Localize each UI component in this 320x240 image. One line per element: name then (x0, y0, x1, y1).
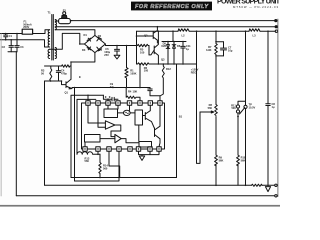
resistor R7 (215, 44, 218, 56)
wire secondary tap3 to bridge (55, 30, 95, 36)
wire emitter drop (74, 88, 76, 182)
svg-text:Q3: Q3 (161, 58, 165, 62)
pot wiper arrow (200, 111, 212, 113)
wire R10 to ground rail (237, 165, 239, 185)
wire right drop (176, 64, 178, 178)
capacitor C7 (221, 42, 227, 56)
capacitor C6 (115, 46, 120, 56)
parallel RC bottom bar (216, 55, 224, 57)
wire op-amp B output (121, 139, 139, 143)
svg-text:56K: 56K (241, 158, 246, 162)
bottom scan line (0, 205, 280, 207)
transformer T1 primary winding (48, 30, 49, 47)
resistor R2 horizontal (62, 65, 72, 67)
pot wiper arrowhead (211, 111, 214, 113)
IC pin 5 (127, 101, 131, 105)
reference banner (131, 2, 212, 11)
node dots AC input (5, 33, 7, 35)
resistor R6 (137, 63, 153, 65)
IC pin 16 (157, 147, 161, 151)
capacitor C1 (4, 34, 8, 40)
svg-text:C2: C2 (2, 45, 6, 49)
diode D4 tick (97, 47, 102, 51)
IC pin 14 (136, 147, 140, 151)
IC pin 12 (117, 147, 121, 151)
svg-text:100K: 100K (130, 71, 136, 75)
IC pin 3 (106, 101, 110, 105)
IC block 3 (139, 142, 152, 148)
IC pin center dots bottom (84, 148, 85, 149)
IC pin 6 (138, 101, 142, 105)
fuse F1 (22, 29, 32, 34)
wire feedback branch (197, 31, 201, 163)
wire Q2 base feed (137, 35, 154, 37)
IC pin 8 (158, 101, 162, 105)
trimmer VR1 (236, 105, 247, 113)
parallel RC top bar (216, 41, 224, 43)
svg-text:560: 560 (103, 166, 108, 170)
wire pin10 stub (97, 151, 99, 154)
thermal fuse icon (62, 12, 68, 19)
wire regulator output riser (172, 31, 174, 41)
capacitor C9 (103, 95, 118, 101)
wire pin11 to bottom bus (109, 151, 120, 177)
ground below C6 (114, 55, 120, 59)
wire branch trimmer (238, 31, 246, 116)
IC pin 13 (128, 147, 132, 151)
transformer T1 aux winding (48, 49, 50, 58)
svg-text:D6: D6 (177, 44, 181, 48)
transformer T1 core (52, 15, 54, 61)
IC pin 10 (96, 147, 100, 151)
return rail bottom (16, 195, 274, 197)
wire riser R6 to mid line (139, 64, 141, 88)
resistor R14 (99, 154, 101, 177)
diode D6 (172, 42, 176, 65)
wire primary return drop (44, 81, 46, 185)
capacitor C10 (148, 88, 160, 101)
resistor R4 above IC (126, 88, 140, 101)
wire pin1 stub (87, 95, 89, 101)
IC op-amp A (105, 121, 115, 129)
resistor R12 to pin8 (160, 64, 164, 101)
IC U1 outline (82, 103, 165, 149)
wire branch R7C7 (215, 31, 217, 43)
svg-text:10K: 10K (133, 90, 138, 94)
capacitor C3 (15, 34, 19, 52)
svg-text:3.9K: 3.9K (206, 48, 212, 52)
svg-text:250V: 250V (23, 25, 29, 29)
fuse F2 (59, 19, 71, 24)
IC internal block 1 (104, 109, 118, 118)
resistor R5 (138, 44, 150, 46)
node dots zener bar (167, 41, 169, 43)
resistor R13 squiggle (77, 152, 100, 155)
rail 2 terminal (275, 26, 277, 28)
wire secondary tap1 to fuse F2 (55, 20, 72, 22)
connector body line (277, 19, 279, 197)
IC oscillator (123, 110, 130, 115)
rail 3 terminal (275, 30, 277, 32)
svg-text:R12: R12 (166, 67, 171, 71)
resistor R11 (252, 184, 263, 186)
snubber bottom bracket (45, 80, 62, 82)
svg-text:10.5V: 10.5V (249, 105, 256, 109)
svg-text:B1: B1 (179, 115, 183, 119)
wire mid line (72, 87, 150, 89)
wire bottom loop inner (75, 151, 120, 181)
svg-text:REG: REG (191, 70, 197, 74)
ground rail terminal (275, 184, 277, 186)
node dots rail3 (172, 30, 174, 32)
polarity plus marks (105, 96, 107, 99)
ground symbol right (265, 187, 270, 192)
svg-text:10µ: 10µ (228, 49, 233, 53)
svg-text:56K: 56K (219, 158, 224, 162)
inductor L2 (178, 29, 189, 31)
rail 1 (70, 20, 275, 22)
wire driver down (138, 125, 140, 142)
svg-text:D4: D4 (99, 48, 103, 52)
diode D1 tick (87, 38, 91, 41)
wire pin4 to block1 (117, 105, 119, 109)
scan background (0, 0, 280, 210)
capacitor C11 (181, 42, 185, 65)
wire osc to driver (130, 112, 135, 114)
wire C8 to ground rail (267, 106, 269, 186)
zener D5 (166, 42, 170, 65)
node dots low bus (158, 63, 160, 65)
IC pin 11 (107, 147, 111, 151)
resistor R1 (125, 68, 128, 78)
IC pin 2 (96, 101, 100, 105)
capacitor C4 snubber (56, 66, 60, 81)
wire pin3 stub (107, 99, 109, 101)
snubber top bracket (45, 65, 62, 67)
node dots rail2 (157, 26, 159, 28)
IC pin 1 (86, 101, 90, 105)
svg-text:D1: D1 (84, 33, 88, 37)
IC block 2 (85, 135, 101, 143)
inductor L3 (249, 29, 260, 31)
wire bridge DC+ (105, 44, 137, 46)
resistor R3 snubber (50, 66, 52, 81)
wire block2 to op-amp B (100, 138, 115, 140)
wire left IC loop (71, 95, 103, 177)
wire pin5 to osc (129, 105, 131, 110)
transformer T1 secondary upper winding (55, 20, 56, 30)
IC oscillator wave (125, 112, 129, 114)
wire trimmer to R10 (237, 117, 239, 156)
trimmer main lead (245, 109, 247, 186)
wire bottom rail IC (71, 177, 177, 179)
resistor R10 (237, 155, 240, 166)
svg-text:C3: C3 (20, 45, 24, 49)
wire pin3 to block1 (107, 105, 109, 109)
node dots left power stage (70, 61, 72, 63)
wire branch to pot (215, 56, 217, 105)
svg-text:560: 560 (208, 106, 213, 110)
IC pin center dots top (87, 102, 88, 103)
wire pin9 to block2 (84, 142, 86, 147)
svg-text:D2: D2 (98, 34, 102, 38)
wire aux winding to bridge AC2 (50, 33, 85, 49)
capacitor C8 (266, 104, 270, 106)
node dots mid line (74, 87, 76, 89)
transistor Q3 (154, 31, 158, 64)
svg-text:25V: 25V (104, 53, 109, 57)
wire block1 to osc (118, 112, 124, 114)
IC driver box (135, 110, 143, 125)
IC ground bracket (139, 151, 160, 156)
wire base feed Q2 (149, 50, 154, 55)
wire chain to R1 (126, 46, 128, 68)
wire AC line top (0, 30, 50, 34)
svg-text:100: 100 (144, 69, 149, 73)
svg-text:D3: D3 (82, 48, 86, 52)
IC pin 15 (148, 147, 152, 151)
transformer T1 secondary lower winding (55, 48, 56, 59)
wire op-amp A output (111, 125, 121, 137)
ground rail mid (45, 184, 275, 186)
potentiometer R8 (215, 105, 218, 116)
rail 1 terminal (275, 20, 277, 22)
svg-text:100: 100 (140, 50, 145, 54)
svg-text:Q1: Q1 (65, 91, 69, 95)
resistor R9 (215, 155, 218, 166)
wire branch C8 (267, 31, 269, 104)
node dots DC bus (116, 45, 118, 47)
wire pin1 to op-amp A (88, 105, 105, 123)
transistor Q2 (153, 27, 157, 43)
wire rail3 left riser (136, 31, 138, 64)
wire zener top bar (162, 41, 186, 43)
svg-text:R4: R4 (128, 90, 132, 94)
scan edge artifact left (0, 34, 2, 197)
wire left return drop (15, 52, 17, 196)
rail 2 (55, 26, 275, 28)
IC transistor Qa (143, 105, 155, 128)
diode D3 tick (87, 47, 91, 50)
node dots bottom rails (99, 177, 101, 179)
svg-text:1µ: 1µ (186, 47, 189, 51)
svg-text:FOR REFERENCE ONLY: FOR REFERENCE ONLY (135, 4, 208, 10)
svg-text:33µ: 33µ (110, 85, 115, 89)
riser R pair right (148, 46, 150, 55)
wire pin2 left loop (77, 99, 96, 154)
wire R1 to mid line (126, 78, 128, 88)
svg-text:6V8: 6V8 (161, 44, 166, 48)
ground symbol IC (139, 156, 144, 160)
svg-text:470p: 470p (61, 71, 67, 75)
wire pot to R9 (215, 117, 217, 156)
svg-text:MT50W — PN-2024-03: MT50W — PN-2024-03 (233, 5, 278, 9)
IC pin 4 (116, 101, 120, 105)
svg-text:560: 560 (85, 159, 90, 163)
transistor Q1 chopper (62, 79, 74, 88)
IC transistor Qb (155, 105, 161, 147)
IC pin 7 (148, 101, 152, 105)
wire AC line bottom (0, 40, 50, 47)
capacitor C2 (9, 40, 13, 52)
IC op-amp B (115, 134, 121, 142)
svg-text:Q2: Q2 (144, 34, 148, 38)
wire R9 to ground rail (215, 165, 217, 185)
transistor Q1 emitter arrow (69, 87, 71, 89)
svg-text:1µ: 1µ (272, 105, 275, 109)
wire pin2 to op-amp A (98, 105, 105, 127)
bridge rectifier diamond (84, 35, 105, 52)
rail 3 (137, 30, 276, 32)
svg-text:500: 500 (231, 106, 236, 110)
diode D2 tick (97, 37, 102, 41)
wire cap join (8, 51, 17, 53)
wire low bus (152, 63, 197, 65)
svg-text:C1: C1 (9, 34, 13, 38)
wire DC- from bridge (71, 53, 95, 80)
return rail terminal (275, 195, 277, 197)
IC pin 9 (83, 147, 87, 151)
node dots pin rows (87, 95, 89, 97)
